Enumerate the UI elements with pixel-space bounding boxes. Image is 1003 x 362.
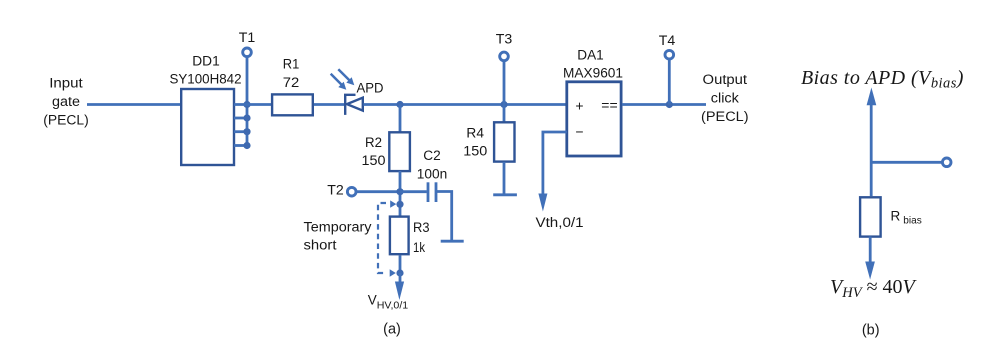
svg-text:−: −	[575, 123, 583, 139]
svg-text:R1: R1	[283, 57, 300, 72]
IC DD1 SY100H842 box	[181, 89, 234, 165]
junction dot pin1	[243, 101, 250, 108]
svg-text:DD1: DD1	[192, 54, 220, 69]
junction node T3/R4	[500, 101, 507, 108]
wire: T1 stem down through DD1 output bus	[246, 57, 249, 146]
comparator DA1 box	[567, 82, 621, 156]
svg-text:DA1: DA1	[577, 48, 604, 63]
svg-text:(PECL): (PECL)	[701, 109, 749, 124]
ground bar R4	[493, 193, 517, 196]
wire: R4 to ground	[503, 162, 506, 195]
resistor R2	[389, 132, 410, 171]
wire: Rbias down arrow	[865, 237, 875, 280]
wire: DA1 output	[622, 103, 706, 106]
svg-text:R4: R4	[466, 126, 484, 141]
resistor R3	[390, 217, 409, 255]
svg-text:(PECL): (PECL)	[43, 113, 89, 128]
wire: R3 to VHV node	[399, 255, 402, 273]
svg-text:72: 72	[283, 75, 300, 90]
node: Input gate (PECL) label	[43, 76, 89, 128]
svg-text:R2: R2	[365, 135, 382, 150]
resistor Rbias	[860, 197, 881, 236]
resistor R1	[272, 94, 313, 115]
ground bar C2	[441, 240, 464, 243]
svg-text:T3: T3	[496, 32, 513, 47]
svg-text:150: 150	[463, 144, 487, 159]
light arrow 1	[338, 69, 354, 85]
svg-text:Rbias: Rbias	[891, 209, 922, 227]
terminal circle	[942, 158, 951, 167]
svg-text:click: click	[711, 91, 739, 106]
svg-text:1k: 1k	[413, 240, 425, 255]
svg-text:SY100H842: SY100H842	[170, 71, 242, 86]
dashed temporary short wire	[378, 203, 386, 273]
test point T2 circle	[347, 187, 356, 196]
short contact arrow top	[390, 200, 396, 207]
svg-text:gate: gate	[52, 94, 80, 109]
svg-text:Input: Input	[49, 76, 83, 91]
test point T4 circle	[665, 50, 674, 59]
wire: T2 to node	[356, 190, 400, 193]
junction dot pin4	[243, 142, 250, 149]
svg-text:C2: C2	[423, 148, 441, 163]
wire: input to DD1	[87, 103, 181, 106]
junction dot short top	[396, 201, 403, 208]
svg-text:100n: 100n	[417, 167, 448, 182]
test point T3 circle	[500, 52, 509, 61]
wire: T4 stem	[668, 59, 671, 105]
svg-text:VHV ≈ 40V: VHV ≈ 40V	[830, 276, 918, 301]
svg-text:VHV,0/1: VHV,0/1	[368, 293, 409, 312]
wire: R2 to T2 node and R3	[399, 171, 402, 217]
light arrow 2	[331, 74, 347, 90]
wire: APD to DA1	[364, 103, 567, 106]
svg-text:T2: T2	[327, 183, 344, 198]
svg-text:(b): (b)	[862, 322, 880, 339]
svg-text:R3: R3	[413, 220, 430, 235]
svg-text:==: ==	[601, 97, 617, 113]
svg-text:Output: Output	[703, 72, 748, 87]
svg-text:short: short	[304, 238, 337, 253]
svg-text:MAX9601: MAX9601	[563, 66, 623, 81]
capacitor C2 plate right	[435, 182, 438, 202]
svg-text:(a): (a)	[383, 321, 401, 338]
test point T1 circle	[243, 48, 252, 57]
wire: minus input to Vth arrow	[543, 132, 567, 196]
junction dot VHV node	[396, 269, 403, 276]
resistor R4	[494, 122, 514, 161]
arrow down VHV	[395, 273, 404, 300]
wire: T3 stem	[503, 61, 506, 124]
junction dot pin3	[243, 128, 250, 135]
svg-text:T1: T1	[239, 30, 256, 45]
wire: C2 to ground	[437, 192, 452, 241]
arrow Vth	[538, 194, 547, 212]
photodiode APD triangle	[347, 98, 363, 111]
svg-text:Temporary: Temporary	[304, 220, 372, 235]
svg-text:Vth,0/1: Vth,0/1	[536, 215, 584, 230]
junction dot pin2	[243, 114, 250, 121]
svg-text:Bias to APD (Vbias): Bias to APD (Vbias)	[801, 67, 964, 92]
svg-text:T4: T4	[659, 33, 676, 48]
pin stub 2	[234, 117, 247, 120]
wire: node to R2	[399, 105, 402, 132]
junction node APD/R2	[396, 101, 403, 108]
label Output click (PECL)	[701, 72, 749, 124]
wire: branch to terminal	[871, 161, 942, 164]
photodiode APD cathode bar	[345, 95, 355, 115]
wire: bias line with up arrow	[867, 88, 877, 197]
pin stub 4	[234, 144, 247, 147]
wire: DD1 to R1	[234, 103, 271, 106]
junction dot T4	[666, 101, 673, 108]
junction dot T2 node	[396, 188, 403, 195]
short contact arrow bottom	[390, 269, 396, 276]
svg-text:150: 150	[362, 153, 386, 168]
pin stub 3	[234, 130, 247, 133]
wire: node to C2	[400, 190, 427, 193]
wire: R1 to APD	[314, 103, 346, 106]
svg-text:+: +	[575, 98, 583, 114]
svg-text:APD: APD	[357, 81, 384, 96]
capacitor C2 plate left	[427, 182, 430, 202]
